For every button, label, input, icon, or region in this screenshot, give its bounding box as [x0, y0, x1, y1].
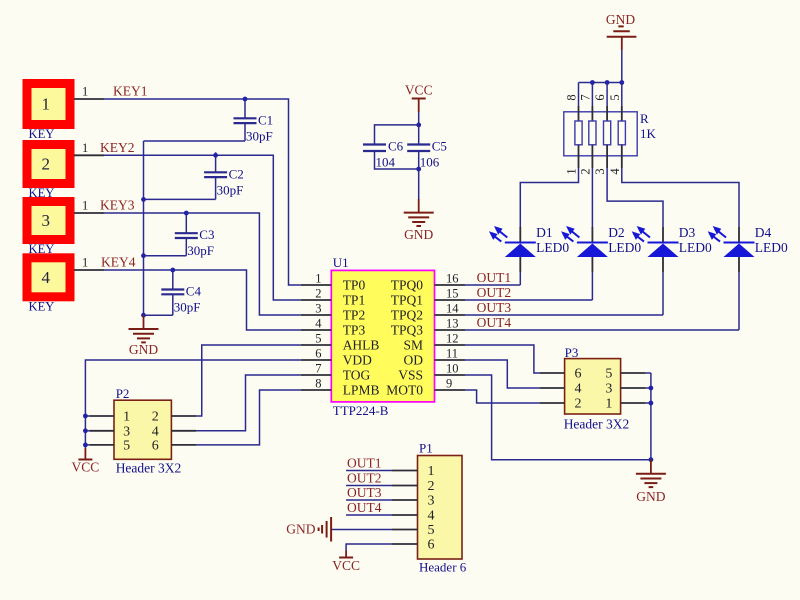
- svg-text:OUT1: OUT1: [477, 270, 512, 285]
- svg-text:AHLB: AHLB: [343, 338, 380, 353]
- svg-text:8: 8: [565, 94, 579, 100]
- svg-text:OUT3: OUT3: [477, 300, 512, 315]
- svg-text:KEY2: KEY2: [100, 140, 135, 155]
- svg-text:KEY3: KEY3: [100, 198, 135, 213]
- svg-text:P2: P2: [116, 386, 130, 401]
- svg-text:4: 4: [608, 168, 622, 175]
- svg-text:GND: GND: [636, 489, 665, 504]
- svg-text:1: 1: [82, 199, 88, 213]
- svg-text:OUT1: OUT1: [347, 456, 382, 471]
- svg-text:Header 3X2: Header 3X2: [116, 461, 182, 476]
- svg-text:TP0: TP0: [343, 278, 366, 293]
- svg-text:D4: D4: [755, 225, 772, 240]
- svg-text:1: 1: [605, 397, 612, 412]
- svg-text:2: 2: [42, 155, 51, 174]
- svg-text:GND: GND: [606, 12, 635, 27]
- svg-text:LPMB: LPMB: [343, 383, 380, 398]
- svg-text:2: 2: [578, 168, 592, 174]
- svg-text:VCC: VCC: [405, 83, 433, 98]
- svg-text:VSS: VSS: [398, 368, 423, 383]
- svg-text:15: 15: [446, 287, 459, 301]
- svg-text:1: 1: [82, 85, 88, 99]
- svg-text:D1: D1: [536, 225, 553, 240]
- svg-text:12: 12: [446, 332, 459, 346]
- svg-text:1K: 1K: [640, 126, 657, 141]
- svg-text:5: 5: [608, 94, 622, 100]
- svg-text:2: 2: [575, 397, 582, 412]
- svg-text:OUT3: OUT3: [347, 485, 382, 500]
- svg-text:LED0: LED0: [679, 240, 712, 255]
- svg-text:P1: P1: [419, 441, 433, 456]
- svg-text:30pF: 30pF: [174, 300, 201, 315]
- svg-text:2: 2: [152, 410, 159, 425]
- svg-text:MOT0: MOT0: [386, 383, 423, 398]
- svg-text:4: 4: [428, 509, 435, 524]
- svg-text:7: 7: [315, 362, 321, 376]
- svg-text:OUT2: OUT2: [347, 471, 382, 486]
- svg-text:3: 3: [605, 382, 612, 397]
- svg-text:16: 16: [446, 272, 459, 286]
- svg-text:KEY1: KEY1: [113, 84, 148, 99]
- svg-text:TPQ1: TPQ1: [391, 293, 423, 308]
- svg-text:30pF: 30pF: [187, 243, 214, 258]
- svg-text:C1: C1: [258, 112, 273, 127]
- svg-text:30pF: 30pF: [217, 182, 244, 197]
- svg-text:C3: C3: [199, 227, 214, 242]
- svg-text:D3: D3: [679, 225, 696, 240]
- svg-text:6: 6: [593, 94, 607, 100]
- svg-text:5: 5: [315, 332, 321, 346]
- svg-text:1: 1: [82, 141, 88, 155]
- svg-text:6: 6: [428, 538, 435, 553]
- svg-text:11: 11: [446, 347, 458, 361]
- svg-text:U1: U1: [333, 255, 349, 270]
- svg-text:30pF: 30pF: [246, 128, 273, 143]
- svg-text:C6: C6: [388, 139, 404, 154]
- svg-text:1: 1: [42, 95, 51, 114]
- svg-text:1: 1: [123, 410, 130, 425]
- svg-text:3: 3: [315, 302, 321, 316]
- svg-text:9: 9: [446, 377, 452, 391]
- svg-text:C2: C2: [229, 166, 244, 181]
- svg-text:KEY: KEY: [29, 127, 55, 141]
- svg-text:OUT4: OUT4: [347, 500, 382, 515]
- svg-text:P3: P3: [565, 345, 579, 360]
- svg-text:3: 3: [123, 424, 130, 439]
- svg-text:TTP224-B: TTP224-B: [333, 403, 389, 418]
- svg-text:7: 7: [578, 94, 592, 100]
- svg-text:D2: D2: [608, 225, 625, 240]
- svg-text:TP1: TP1: [343, 293, 366, 308]
- svg-text:LED0: LED0: [536, 240, 569, 255]
- svg-text:SM: SM: [403, 338, 423, 353]
- svg-text:TP2: TP2: [343, 308, 366, 323]
- svg-text:8: 8: [315, 377, 321, 391]
- svg-text:R: R: [640, 111, 649, 126]
- svg-text:GND: GND: [286, 522, 315, 537]
- svg-text:TPQ2: TPQ2: [391, 308, 423, 323]
- svg-text:14: 14: [446, 302, 459, 316]
- svg-text:TOG: TOG: [343, 368, 371, 383]
- svg-text:1: 1: [82, 256, 88, 270]
- svg-text:5: 5: [123, 438, 130, 453]
- svg-text:OUT4: OUT4: [477, 315, 512, 330]
- svg-text:1: 1: [315, 272, 321, 286]
- svg-text:KEY: KEY: [29, 299, 55, 313]
- svg-text:OUT2: OUT2: [477, 285, 512, 300]
- svg-text:LED0: LED0: [608, 240, 641, 255]
- svg-text:VDD: VDD: [343, 353, 372, 368]
- svg-text:4: 4: [42, 268, 51, 287]
- svg-text:GND: GND: [404, 227, 433, 242]
- svg-text:106: 106: [420, 155, 440, 170]
- svg-text:5: 5: [428, 523, 435, 538]
- svg-text:4: 4: [315, 317, 322, 331]
- svg-text:104: 104: [376, 155, 396, 170]
- svg-text:3: 3: [42, 211, 51, 230]
- svg-text:Header 6: Header 6: [419, 560, 467, 575]
- svg-text:TPQ3: TPQ3: [391, 323, 424, 338]
- svg-text:13: 13: [446, 317, 459, 331]
- svg-text:C5: C5: [432, 139, 447, 154]
- svg-text:4: 4: [152, 424, 159, 439]
- svg-text:5: 5: [605, 367, 612, 382]
- svg-text:3: 3: [428, 494, 435, 509]
- svg-text:1: 1: [428, 464, 435, 479]
- svg-text:VCC: VCC: [332, 558, 360, 573]
- svg-text:Header 3X2: Header 3X2: [564, 417, 630, 432]
- svg-text:6: 6: [152, 438, 159, 453]
- svg-text:KEY4: KEY4: [101, 255, 136, 270]
- svg-text:OD: OD: [404, 353, 424, 368]
- svg-text:TPQ0: TPQ0: [391, 278, 424, 293]
- svg-text:2: 2: [428, 479, 435, 494]
- svg-text:C4: C4: [186, 284, 202, 299]
- svg-text:10: 10: [446, 362, 459, 376]
- svg-text:2: 2: [315, 287, 321, 301]
- svg-text:1: 1: [565, 168, 579, 174]
- svg-text:GND: GND: [129, 342, 158, 357]
- svg-text:VCC: VCC: [72, 460, 100, 475]
- svg-text:6: 6: [315, 347, 321, 361]
- svg-text:LED0: LED0: [755, 240, 788, 255]
- svg-text:6: 6: [575, 367, 582, 382]
- svg-text:3: 3: [593, 168, 607, 174]
- svg-text:4: 4: [575, 382, 582, 397]
- svg-text:TP3: TP3: [343, 323, 366, 338]
